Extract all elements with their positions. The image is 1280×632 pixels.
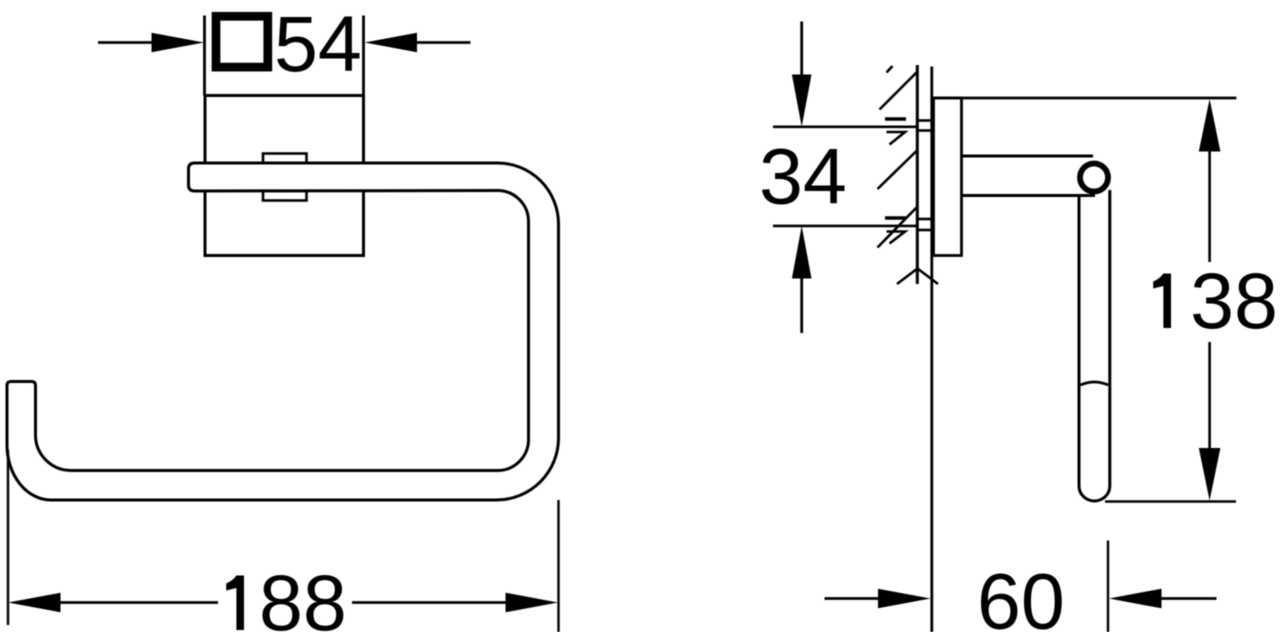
svg-text:34: 34 — [759, 132, 847, 221]
svg-text:88: 88 — [259, 558, 347, 632]
svg-text:38: 38 — [1190, 256, 1278, 345]
svg-text:60: 60 — [977, 557, 1065, 632]
svg-text:54: 54 — [274, 0, 362, 88]
